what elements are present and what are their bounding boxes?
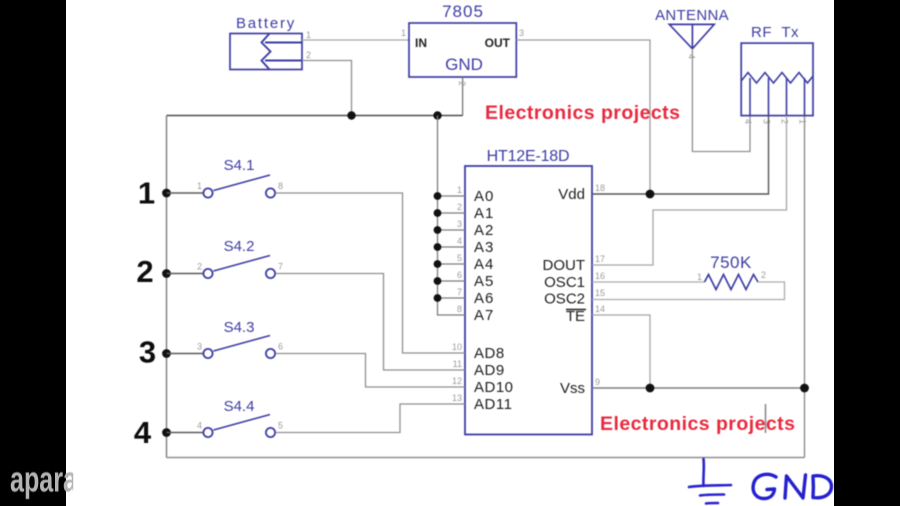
svg-text:3: 3 xyxy=(197,342,202,352)
address bus vertical A0-A7 xyxy=(438,116,466,316)
right ground riser RF Tx pin1 to rail xyxy=(804,116,806,458)
svg-text:15: 15 xyxy=(595,288,605,298)
svg-text:DOUT: DOUT xyxy=(543,257,586,274)
svg-text:A2: A2 xyxy=(474,222,494,239)
svg-text:16: 16 xyxy=(595,271,605,281)
svg-text:Electronics projects: Electronics projects xyxy=(485,102,680,124)
junction node 3 xyxy=(162,349,171,358)
watermark apara xyxy=(10,460,73,505)
svg-text:9: 9 xyxy=(595,377,600,387)
svg-text:1: 1 xyxy=(197,181,202,191)
junction node 4 xyxy=(162,428,171,437)
svg-text:13: 13 xyxy=(452,393,462,403)
svg-text:S4.2: S4.2 xyxy=(224,238,255,255)
svg-text:11: 11 xyxy=(453,359,462,369)
svg-text:6: 6 xyxy=(278,342,283,352)
svg-text:2: 2 xyxy=(457,202,462,212)
switch S4.2 xyxy=(167,256,284,279)
svg-text:A1: A1 xyxy=(474,205,494,222)
switch S4.1 xyxy=(167,175,284,198)
junction dots on address bus xyxy=(434,192,442,302)
bottom ground rail xyxy=(167,457,805,459)
svg-text:1: 1 xyxy=(697,272,702,282)
svg-text:3: 3 xyxy=(519,28,524,38)
resistor R1 750K zigzag xyxy=(705,275,759,290)
svg-text:S4.1: S4.1 xyxy=(224,157,255,174)
svg-text:A6: A6 xyxy=(474,290,494,307)
svg-text:7805: 7805 xyxy=(442,2,484,21)
svg-text:18: 18 xyxy=(595,183,605,193)
svg-text:4: 4 xyxy=(457,236,462,246)
svg-text:S4.3: S4.3 xyxy=(224,319,255,336)
wire Vss to ground riser xyxy=(592,387,805,389)
svg-text:Vdd: Vdd xyxy=(558,186,585,203)
svg-text:17: 17 xyxy=(595,254,605,264)
junction TE on Vss wire xyxy=(646,384,655,393)
wire 7805 OUT to Vdd node xyxy=(516,40,650,194)
GND handwritten text xyxy=(753,474,831,498)
svg-text:S4.4: S4.4 xyxy=(224,398,255,415)
wire antenna to RF Tx pin4 xyxy=(692,49,750,152)
svg-text:TE: TE xyxy=(566,308,585,325)
junction battery pin2 on rail xyxy=(347,111,355,119)
svg-text:8: 8 xyxy=(457,304,462,314)
svg-text:A3: A3 xyxy=(474,239,494,256)
svg-text:RF Tx: RF Tx xyxy=(751,24,799,41)
wire TE to ground xyxy=(592,315,650,388)
wire battery pin1 to 7805 IN xyxy=(302,39,409,41)
regulator U2 7805 box xyxy=(409,23,516,77)
right pin numbers xyxy=(595,183,605,387)
svg-text:4: 4 xyxy=(134,415,152,450)
svg-text:AD10: AD10 xyxy=(474,379,514,396)
cursor mark xyxy=(765,404,767,433)
ground rail top xyxy=(167,115,463,117)
switch S4.4 xyxy=(167,415,284,438)
svg-text:5: 5 xyxy=(278,421,283,431)
svg-text:HT12E-18D: HT12E-18D xyxy=(487,148,570,165)
svg-text:8: 8 xyxy=(278,181,283,191)
junction Vss / riser xyxy=(800,384,809,393)
svg-text:3: 3 xyxy=(457,219,462,229)
svg-text:AD11: AD11 xyxy=(474,396,512,413)
svg-text:750K: 750K xyxy=(710,253,752,272)
right video letterbox bar xyxy=(834,0,900,506)
battery BT1 xyxy=(230,34,302,70)
svg-text:AD8: AD8 xyxy=(474,345,505,362)
svg-text:4: 4 xyxy=(197,421,202,431)
svg-text:A5: A5 xyxy=(474,273,494,290)
junction address bus on rail xyxy=(433,111,441,119)
svg-text:2: 2 xyxy=(780,119,790,124)
wire S4.1 to AD8 xyxy=(276,193,466,353)
svg-text:1: 1 xyxy=(798,119,808,124)
ground symbol handwritten xyxy=(689,459,731,504)
wire S4.4 to AD11 xyxy=(276,404,466,433)
junction node 1 xyxy=(162,189,171,198)
svg-text:IN: IN xyxy=(415,36,427,50)
svg-text:OSC1: OSC1 xyxy=(544,274,585,291)
antenna ANT1 symbol xyxy=(669,24,714,48)
svg-text:1: 1 xyxy=(306,30,311,40)
junction node 2 xyxy=(162,269,171,278)
switch S4.3 xyxy=(167,336,284,359)
svg-text:1: 1 xyxy=(457,185,462,195)
svg-text:ANTENNA: ANTENNA xyxy=(655,7,729,24)
svg-text:OUT: OUT xyxy=(485,36,511,50)
IC U1 HT12E-18D body xyxy=(465,166,592,435)
wire S4.2 to AD9 xyxy=(276,274,466,371)
svg-text:2: 2 xyxy=(136,254,153,289)
svg-text:A7: A7 xyxy=(474,307,494,324)
RF Tx internal coil zigzag xyxy=(741,73,813,84)
svg-text:Vss: Vss xyxy=(560,380,585,397)
svg-text:Battery: Battery xyxy=(236,15,296,32)
RF Tx module U3 box xyxy=(741,43,813,116)
svg-text:GND: GND xyxy=(445,55,483,74)
svg-text:1: 1 xyxy=(401,28,406,38)
svg-text:7: 7 xyxy=(457,287,462,297)
wire battery pin2 down to ground rail xyxy=(302,61,352,116)
svg-text:A4: A4 xyxy=(474,256,494,273)
wire OSC1 to resistor R1 xyxy=(592,281,705,283)
wire 7805 GND to ground rail xyxy=(462,77,464,116)
svg-text:AD9: AD9 xyxy=(474,362,505,379)
svg-text:2: 2 xyxy=(306,50,311,60)
svg-text:3: 3 xyxy=(139,335,156,370)
svg-text:2: 2 xyxy=(197,262,202,272)
svg-text:3: 3 xyxy=(762,119,772,124)
svg-text:7: 7 xyxy=(278,262,283,272)
wire Vdd to RF Tx pin3 xyxy=(592,116,769,194)
svg-text:1: 1 xyxy=(138,176,155,211)
svg-text:4: 4 xyxy=(743,119,753,124)
svg-text:12: 12 xyxy=(452,376,462,386)
wire resistor R1 to OSC2 xyxy=(592,282,785,300)
wire DOUT to RF Tx pin2 xyxy=(592,116,787,265)
svg-text:10: 10 xyxy=(452,342,462,352)
left video letterbox bar xyxy=(0,0,66,506)
svg-text:14: 14 xyxy=(595,304,605,314)
pin stubs A0-A6 xyxy=(438,196,466,298)
left ground rail xyxy=(166,116,168,458)
svg-text:A0: A0 xyxy=(474,188,494,205)
svg-text:2: 2 xyxy=(761,270,766,280)
junction Vdd / 7805 OUT xyxy=(646,190,655,199)
left pin numbers 1-8 and 10-13 xyxy=(452,185,462,403)
svg-text:5: 5 xyxy=(457,253,462,263)
svg-text:OSC2: OSC2 xyxy=(544,291,585,308)
wire S4.3 to AD10 xyxy=(276,354,466,388)
svg-text:6: 6 xyxy=(457,270,462,280)
RF Tx internal pin lines xyxy=(750,78,805,116)
svg-text:4: 4 xyxy=(687,54,697,59)
